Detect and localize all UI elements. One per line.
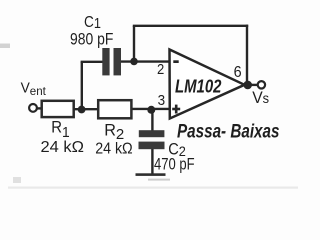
svg-text:Passa- Baixas: Passa- Baixas: [177, 119, 280, 141]
node D output junction dot: [243, 81, 252, 90]
wire: feedback right riser down to output: [246, 25, 248, 85]
resistor R1 body: [42, 101, 74, 117]
resistor R2 body: [98, 100, 131, 118]
svg-text:Vs: Vs: [252, 89, 269, 107]
svg-text:LM102: LM102: [175, 76, 222, 97]
op-amp U1 LM102 triangle: [170, 50, 245, 119]
svg-text:470 pF: 470 pF: [154, 156, 195, 174]
svg-text:3: 3: [158, 92, 166, 109]
svg-text:2: 2: [157, 61, 164, 77]
wire: input terminal to R1: [37, 107, 43, 109]
wire: R1 to R2: [74, 108, 100, 110]
wire: R2 to op-amp pin 3: [131, 108, 169, 110]
wire: C2 to ground: [151, 149, 153, 174]
svg-text:980 pF: 980 pF: [70, 30, 113, 48]
node B junction dot: [147, 106, 155, 114]
scan artifact left smudge: [13, 177, 21, 183]
op-amp minus sign (pin 2): [173, 60, 178, 63]
ground echo artifact: [148, 179, 170, 181]
scan artifact top-left dash: [0, 44, 10, 49]
wire: C1 to op-amp pin 2: [121, 60, 170, 62]
ground bar: [136, 173, 166, 176]
capacitor C1 plate right: [114, 48, 122, 75]
wire: feedback top horizontal: [133, 25, 248, 27]
output terminal circle: [258, 81, 265, 88]
node C junction dot: [130, 58, 138, 66]
input terminal circle: [29, 104, 37, 112]
scan artifact streak bottom: [8, 187, 298, 189]
svg-text:C1: C1: [84, 14, 101, 31]
node A junction dot: [78, 106, 86, 114]
wire: feedback riser from node C up: [133, 26, 135, 62]
svg-text:24 kΩ: 24 kΩ: [95, 140, 132, 158]
svg-text:6: 6: [234, 63, 242, 81]
svg-text:24 kΩ: 24 kΩ: [41, 138, 84, 156]
wire: C1 branch left horizontal: [81, 61, 103, 63]
wire: riser from node A up to C1 branch: [81, 62, 83, 110]
capacitor C1 plate left: [102, 48, 109, 75]
capacitor C2 plate bottom: [139, 142, 165, 150]
wire: riser node B down to C2: [151, 110, 153, 131]
op-amp plus sign (pin 3): [172, 105, 180, 114]
wire: output to terminal Vs: [244, 84, 259, 86]
capacitor C2 plate top: [139, 130, 165, 137]
